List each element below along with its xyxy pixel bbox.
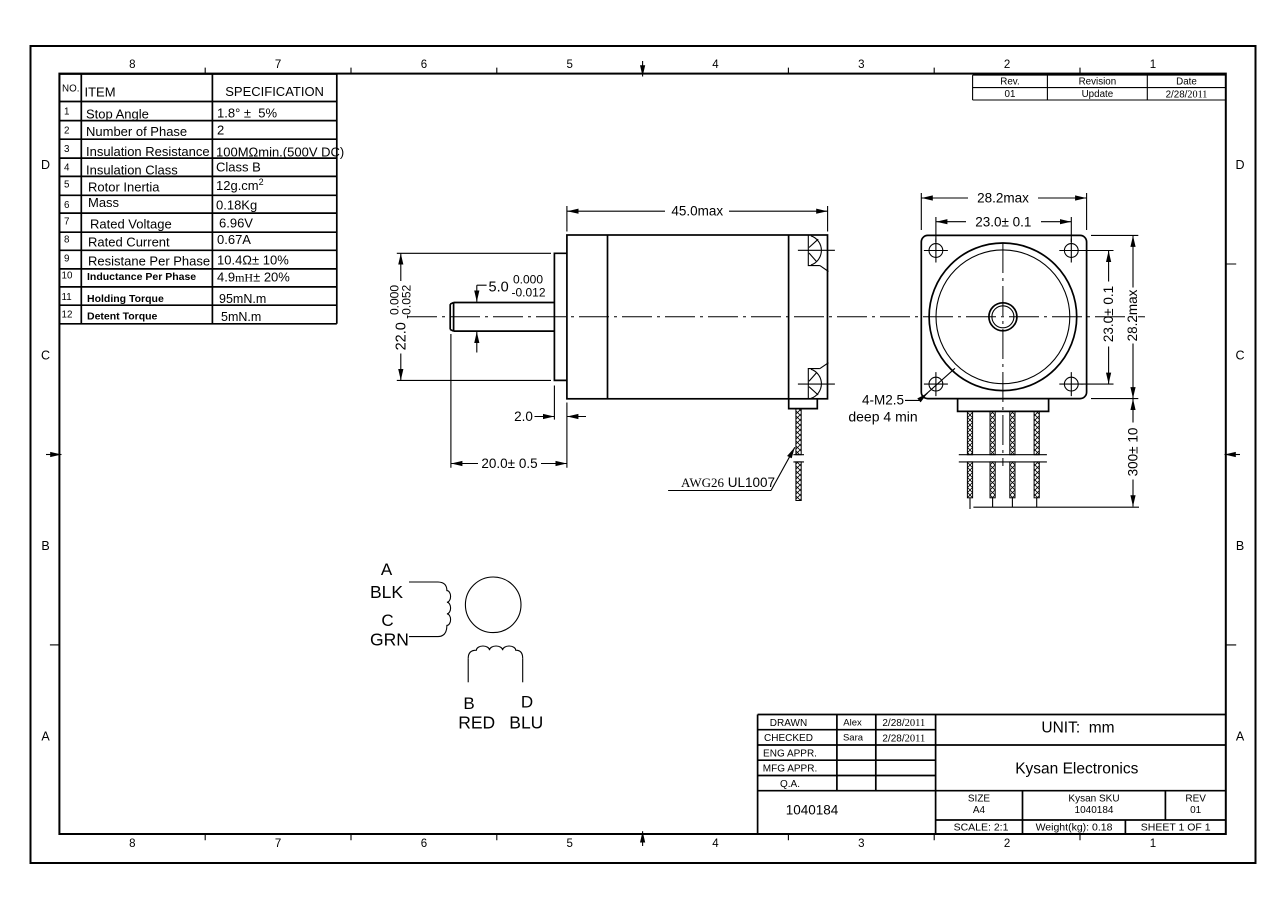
svg-text:2: 2 bbox=[217, 123, 224, 138]
svg-text:A: A bbox=[41, 730, 50, 744]
title Kysan Electronics bbox=[1015, 761, 1138, 778]
svg-text:SHEET 1 OF 1: SHEET 1 OF 1 bbox=[1141, 822, 1211, 834]
svg-text:1: 1 bbox=[1150, 59, 1156, 71]
svg-text:Date: Date bbox=[1176, 77, 1197, 88]
front wire 1 upper bbox=[967, 411, 972, 454]
schematic BLU label bbox=[509, 713, 543, 733]
sheet inner border frame bbox=[59, 74, 1225, 834]
svg-text:22.0: 22.0 bbox=[394, 322, 410, 350]
front wire 1 lower bbox=[967, 462, 972, 498]
svg-text:Rotor Inertia: Rotor Inertia bbox=[88, 180, 160, 195]
svg-text:5.0: 5.0 bbox=[489, 280, 509, 296]
dimension 28.2max right bbox=[1125, 236, 1140, 399]
dimension 23.0±0.1 top extension lines bbox=[936, 217, 1071, 242]
svg-text:A: A bbox=[381, 560, 393, 579]
zone labels bottom bbox=[129, 838, 1156, 850]
svg-text:Detent Torque: Detent Torque bbox=[87, 310, 158, 322]
front wire 4 upper bbox=[1034, 411, 1039, 454]
svg-text:D: D bbox=[521, 693, 533, 712]
schematic phase C label bbox=[381, 611, 393, 630]
svg-text:11: 11 bbox=[62, 292, 72, 303]
spec row 5 Rotor Inertia bbox=[64, 177, 264, 195]
svg-text:C: C bbox=[1235, 349, 1244, 363]
schematic coil B-D right lead wire bbox=[522, 658, 524, 682]
svg-text:Rated Voltage: Rated Voltage bbox=[90, 217, 172, 232]
title block grid bbox=[758, 715, 1226, 835]
zone boundary ticks top bbox=[205, 68, 1080, 74]
svg-text:Kysan Electronics: Kysan Electronics bbox=[1015, 761, 1138, 778]
svg-text:Rated Current: Rated Current bbox=[88, 235, 170, 250]
svg-text:Q.A.: Q.A. bbox=[780, 779, 800, 790]
mounting hole top-left bbox=[924, 239, 948, 263]
svg-text:D: D bbox=[41, 158, 50, 172]
svg-text:-0.012: -0.012 bbox=[512, 286, 546, 300]
zone boundary ticks right bbox=[1226, 264, 1236, 645]
svg-text:DRAWN: DRAWN bbox=[770, 718, 807, 729]
label AWG26 UL1007 with leader bbox=[668, 447, 795, 490]
svg-text:-0.052: -0.052 bbox=[400, 284, 414, 318]
svg-text:6.96V: 6.96V bbox=[219, 215, 253, 230]
zone boundary ticks left bbox=[50, 644, 60, 646]
svg-text:9: 9 bbox=[64, 253, 69, 264]
sheet centering mark top bbox=[642, 61, 644, 77]
zone boundary ticks bottom bbox=[205, 834, 1080, 840]
svg-text:Kysan SKU: Kysan SKU bbox=[1068, 794, 1119, 805]
svg-text:2/28/2011: 2/28/2011 bbox=[882, 733, 925, 744]
schematic BLK label bbox=[370, 582, 403, 602]
svg-text:GRN: GRN bbox=[370, 629, 409, 649]
svg-text:B: B bbox=[41, 539, 49, 553]
svg-text:2: 2 bbox=[1004, 838, 1010, 850]
dimension 22.0 text with tolerance bbox=[388, 284, 414, 350]
svg-text:95mN.m: 95mN.m bbox=[219, 292, 266, 306]
svg-text:Weight(kg): 0.18: Weight(kg): 0.18 bbox=[1036, 822, 1113, 834]
svg-text:BLK: BLK bbox=[370, 582, 403, 602]
svg-text:45.0max: 45.0max bbox=[671, 204, 723, 219]
spec row 4 Insulation Class bbox=[64, 160, 261, 178]
schematic coil A-C top lead wire bbox=[409, 581, 438, 583]
side view top screw section bbox=[798, 235, 835, 271]
sheet centering mark left bbox=[46, 454, 62, 456]
sheet centering mark right bbox=[1225, 454, 1241, 456]
label 4-M2.5 deep 4 min with leader bbox=[848, 368, 955, 424]
mounting hole top-right bbox=[1059, 239, 1083, 263]
svg-text:2: 2 bbox=[1004, 59, 1010, 71]
title part number 1040184 bbox=[786, 803, 839, 818]
dimension 2.0 bbox=[514, 409, 586, 424]
specification table grid bbox=[59, 74, 336, 324]
revision table text bbox=[1000, 77, 1207, 101]
front wire 3 lower bbox=[1010, 462, 1015, 498]
title ENG APPR row bbox=[763, 748, 817, 759]
dimension 45.0max extension lines bbox=[567, 206, 828, 232]
title Kysan SKU cell bbox=[1068, 794, 1119, 817]
front view shaft circle bbox=[992, 306, 1014, 328]
svg-text:ENG APPR.: ENG APPR. bbox=[763, 748, 817, 759]
svg-text:C: C bbox=[381, 611, 393, 630]
svg-text:5mN.m: 5mN.m bbox=[221, 310, 261, 324]
svg-text:SIZE: SIZE bbox=[968, 794, 991, 805]
dimension 20.0 extension line at shaft end bbox=[450, 334, 452, 468]
svg-text:B: B bbox=[1236, 539, 1244, 553]
side view lead wire break bbox=[793, 455, 804, 462]
dimension 28.2max right extension lines bbox=[1091, 235, 1138, 398]
svg-text:REV: REV bbox=[1185, 794, 1206, 805]
schematic terminal D label bbox=[521, 693, 533, 712]
svg-text:7: 7 bbox=[64, 217, 69, 228]
svg-text:8: 8 bbox=[129, 838, 135, 850]
side view rear plate line bbox=[788, 235, 790, 399]
svg-text:12g.cm2: 12g.cm2 bbox=[216, 177, 264, 193]
svg-text:Inductance Per Phase: Inductance Per Phase bbox=[87, 271, 196, 283]
spec row 3 Insulation Resistance bbox=[64, 144, 344, 160]
svg-text:Stop Angle: Stop Angle bbox=[86, 106, 149, 121]
svg-text:C: C bbox=[41, 349, 50, 363]
front wires break lines bbox=[959, 455, 1047, 462]
spec row 1 Stop Angle bbox=[64, 106, 277, 122]
svg-text:Class B: Class B bbox=[216, 160, 261, 175]
front view inner pilot circle bbox=[936, 250, 1070, 384]
svg-text:5: 5 bbox=[566, 838, 572, 850]
svg-text:Insulation Class: Insulation Class bbox=[86, 162, 178, 177]
title QA row bbox=[780, 779, 800, 790]
svg-text:SPECIFICATION: SPECIFICATION bbox=[225, 84, 324, 99]
svg-text:3: 3 bbox=[858, 59, 864, 71]
svg-text:8: 8 bbox=[129, 59, 135, 71]
front view vertical centerline bbox=[1002, 243, 1004, 466]
svg-text:BLU: BLU bbox=[509, 713, 543, 733]
spec row 12 Detent Torque bbox=[62, 309, 262, 324]
schematic coil A-C winding bbox=[438, 582, 451, 637]
svg-text:2/28/2011: 2/28/2011 bbox=[882, 718, 925, 729]
specification table header bbox=[62, 84, 324, 100]
svg-text:100MΩmin.(500V DC): 100MΩmin.(500V DC) bbox=[216, 144, 344, 159]
svg-text:23.0± 0.1: 23.0± 0.1 bbox=[975, 214, 1031, 229]
title UNIT mm bbox=[1041, 720, 1114, 737]
schematic coil B-D left lead wire bbox=[467, 658, 469, 682]
svg-text:5: 5 bbox=[566, 59, 572, 71]
sheet centering mark bottom bbox=[642, 831, 644, 846]
spec row 8 Rated Current bbox=[64, 232, 251, 250]
svg-text:A4: A4 bbox=[973, 805, 986, 816]
title SCALE cell bbox=[954, 822, 1009, 834]
front wire 2 lower bbox=[990, 462, 995, 498]
svg-text:D: D bbox=[1235, 158, 1244, 172]
dimension 45.0max bbox=[567, 204, 827, 219]
svg-text:Resistane Per Phase: Resistane Per Phase bbox=[88, 253, 210, 268]
dimension 2.0 extension lines bbox=[554, 386, 567, 468]
dimension 300±10 bbox=[1125, 399, 1140, 507]
title DRAWN row bbox=[770, 717, 925, 729]
spec row 10 Inductance Per Phase bbox=[62, 270, 291, 285]
title Weight cell bbox=[1036, 822, 1113, 834]
svg-text:Insulation Resistance: Insulation Resistance bbox=[86, 144, 210, 159]
dimension 23.0±0.1 top bbox=[936, 214, 1071, 229]
dimension 20.0±0.5 bbox=[451, 456, 567, 471]
svg-text:6: 6 bbox=[64, 200, 70, 211]
svg-text:3: 3 bbox=[858, 838, 864, 850]
side view motor body bbox=[567, 235, 828, 399]
svg-text:4: 4 bbox=[64, 162, 70, 173]
svg-text:6: 6 bbox=[421, 59, 427, 71]
svg-text:4: 4 bbox=[712, 838, 719, 850]
svg-text:0.18Kg: 0.18Kg bbox=[216, 198, 257, 213]
front wire 4 lower bbox=[1034, 462, 1039, 498]
svg-text:Number of Phase: Number of Phase bbox=[86, 124, 187, 139]
side view front plate line bbox=[607, 235, 609, 399]
title CHECKED row bbox=[764, 733, 925, 745]
svg-text:CHECKED: CHECKED bbox=[764, 733, 813, 744]
svg-text:2: 2 bbox=[64, 126, 69, 137]
dimension 23.0±0.1 right bbox=[1101, 251, 1116, 384]
svg-text:B: B bbox=[463, 694, 474, 713]
spec row 6 Mass bbox=[64, 195, 257, 213]
zone labels right bbox=[1235, 158, 1244, 744]
svg-text:Holding Torque: Holding Torque bbox=[87, 293, 164, 305]
svg-text:1.8° ± 5%: 1.8° ± 5% bbox=[217, 106, 277, 121]
dimension 22.0 extension lines bbox=[397, 253, 551, 380]
svg-text:1040184: 1040184 bbox=[786, 803, 839, 818]
spec row 2 Number of Phase bbox=[64, 123, 224, 140]
svg-text:Alex: Alex bbox=[843, 717, 862, 728]
svg-text:1: 1 bbox=[1150, 838, 1156, 850]
svg-text:SCALE: 2:1: SCALE: 2:1 bbox=[954, 822, 1009, 834]
schematic coil A-C bottom lead wire bbox=[409, 636, 438, 638]
side view bottom screw section bbox=[798, 363, 835, 399]
svg-text:5: 5 bbox=[64, 180, 70, 191]
svg-text:23.0± 0.1: 23.0± 0.1 bbox=[1101, 286, 1116, 342]
spec row 7 Rated Voltage bbox=[64, 215, 253, 231]
svg-text:12: 12 bbox=[62, 309, 73, 320]
zone labels left bbox=[41, 158, 50, 744]
dimension 22.0 line bbox=[400, 253, 402, 380]
front view flange square bbox=[921, 235, 1086, 398]
svg-text:28.2max: 28.2max bbox=[1125, 289, 1140, 341]
dimension 28.2max top bbox=[922, 191, 1087, 206]
wire length extension line bbox=[973, 506, 1139, 508]
svg-text:10.4Ω± 10%: 10.4Ω± 10% bbox=[217, 253, 289, 268]
svg-text:AWG26 UL1007: AWG26 UL1007 bbox=[681, 475, 775, 490]
svg-text:10: 10 bbox=[62, 270, 73, 281]
zone labels top bbox=[129, 59, 1156, 71]
side view lead wire upper segment bbox=[796, 409, 801, 455]
title MFG APPR row bbox=[763, 764, 817, 775]
side view shaft bbox=[450, 303, 554, 332]
svg-text:Mass: Mass bbox=[88, 195, 120, 210]
dimension 5.0 leader arrows bbox=[477, 285, 487, 352]
svg-text:28.2max: 28.2max bbox=[977, 191, 1029, 206]
svg-text:2.0: 2.0 bbox=[514, 409, 533, 424]
svg-text:Rev.: Rev. bbox=[1000, 77, 1019, 88]
mounting hole bottom-left bbox=[924, 372, 948, 396]
revision table top right bbox=[973, 75, 1226, 100]
svg-text:4.9mH± 20%: 4.9mH± 20% bbox=[217, 270, 290, 285]
title REV cell bbox=[1185, 794, 1206, 817]
svg-text:Revision: Revision bbox=[1079, 77, 1117, 88]
spec row 11 Holding Torque bbox=[62, 292, 267, 306]
svg-text:1: 1 bbox=[64, 106, 69, 117]
side view wire exit tab bbox=[789, 399, 818, 409]
svg-text:4-M2.5: 4-M2.5 bbox=[862, 393, 904, 408]
svg-text:2/28/2011: 2/28/2011 bbox=[1166, 89, 1208, 100]
svg-text:1040184: 1040184 bbox=[1075, 805, 1114, 816]
dimension 28.2max top extension lines bbox=[921, 193, 1086, 230]
svg-text:4: 4 bbox=[712, 59, 719, 71]
title SIZE cell bbox=[968, 794, 991, 817]
svg-text:RED: RED bbox=[458, 713, 495, 733]
front view outer pilot circle bbox=[929, 243, 1077, 391]
schematic RED label bbox=[458, 713, 495, 733]
svg-text:300± 10: 300± 10 bbox=[1125, 428, 1140, 477]
svg-text:A: A bbox=[1236, 730, 1245, 744]
svg-text:3: 3 bbox=[64, 144, 70, 155]
svg-text:NO.: NO. bbox=[62, 84, 79, 95]
title SHEET cell bbox=[1141, 822, 1211, 834]
svg-text:MFG APPR.: MFG APPR. bbox=[763, 764, 817, 775]
svg-text:7: 7 bbox=[275, 59, 281, 71]
dimension 23.0±0.1 right extension lines bbox=[1081, 251, 1114, 385]
svg-text:8: 8 bbox=[64, 235, 70, 246]
front wire 2 upper bbox=[990, 411, 995, 454]
side view pilot boss bbox=[554, 253, 567, 380]
mounting hole bottom-right bbox=[1059, 372, 1083, 396]
svg-text:01: 01 bbox=[1005, 89, 1016, 100]
svg-text:ITEM: ITEM bbox=[85, 85, 116, 100]
svg-text:20.0± 0.5: 20.0± 0.5 bbox=[481, 456, 537, 471]
side view lead wire lower segment bbox=[796, 462, 801, 501]
front wire 3 upper bbox=[1010, 411, 1015, 454]
schematic phase A label bbox=[381, 560, 393, 579]
schematic GRN label bbox=[370, 629, 409, 649]
svg-text:Update: Update bbox=[1082, 89, 1114, 100]
schematic terminal B label bbox=[463, 694, 474, 713]
front view connector tab bbox=[958, 399, 1049, 412]
svg-text:UNIT: mm: UNIT: mm bbox=[1041, 720, 1114, 737]
front wire tips bbox=[970, 498, 1037, 509]
front view shaft boss circle bbox=[989, 303, 1017, 331]
schematic rotor circle bbox=[465, 577, 521, 633]
svg-text:7: 7 bbox=[275, 838, 281, 850]
svg-text:0.67A: 0.67A bbox=[217, 232, 251, 247]
svg-text:Sara: Sara bbox=[843, 733, 864, 744]
dimension 5.0 text with tolerance bbox=[489, 273, 546, 300]
spec row 9 Resistane Per Phase bbox=[64, 253, 289, 269]
svg-text:6: 6 bbox=[421, 838, 427, 850]
svg-text:01: 01 bbox=[1190, 805, 1202, 816]
main horizontal centerline through side and front views bbox=[407, 316, 1145, 318]
svg-text:deep 4 min: deep 4 min bbox=[848, 409, 917, 425]
schematic coil B-D winding bbox=[468, 646, 523, 658]
